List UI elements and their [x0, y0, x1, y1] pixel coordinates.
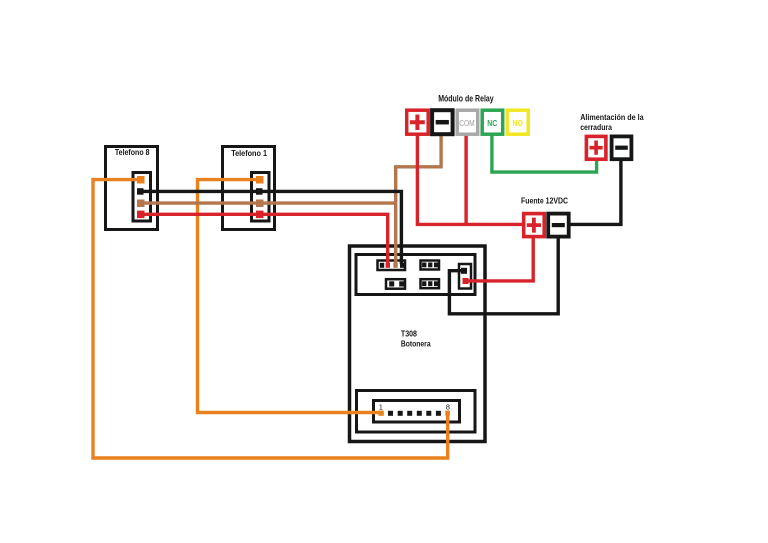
svg-text:Módulo de Relay: Módulo de Relay	[438, 94, 494, 104]
svg-text:T308: T308	[401, 328, 417, 338]
svg-text:Alimentación de la: Alimentación de la	[580, 112, 644, 122]
svg-text:Fuente 12VDC: Fuente 12VDC	[521, 195, 568, 205]
svg-text:cerradura: cerradura	[580, 122, 612, 132]
svg-text:Telefono 1: Telefono 1	[231, 148, 267, 158]
svg-text:Telefono 8: Telefono 8	[115, 147, 150, 157]
svg-text:COM: COM	[459, 119, 474, 128]
svg-text:Botonera: Botonera	[401, 339, 431, 349]
svg-text:NC: NC	[487, 119, 497, 128]
svg-text:NO: NO	[512, 119, 523, 128]
svg-text:1: 1	[379, 403, 383, 412]
svg-text:8: 8	[446, 403, 450, 412]
